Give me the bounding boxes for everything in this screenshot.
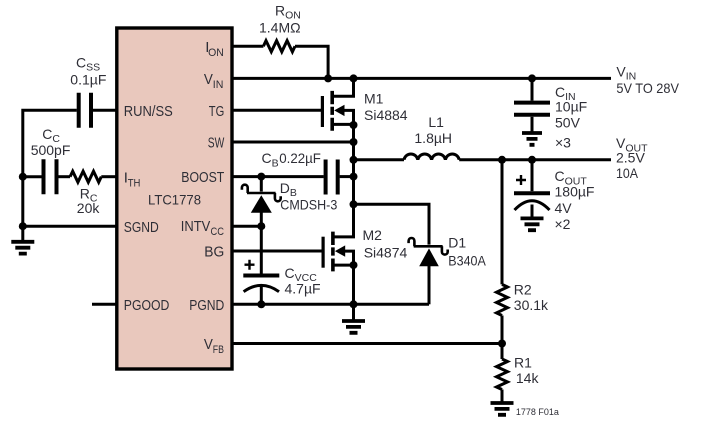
resistor R2 [497,284,508,315]
svg-text:500pF: 500pF [31,142,71,158]
wire COUT to ground [531,205,534,217]
svg-text:M2: M2 [363,227,383,243]
capacitor COUT curved plate [515,201,550,210]
svg-text:IN: IN [213,79,224,91]
svg-text:R2: R2 [514,282,532,298]
wire R2 to VFB [501,316,504,344]
diode D1 schottky bar [409,238,448,255]
svg-text:PGND: PGND [189,297,224,314]
svg-text:0.22µF: 0.22µF [279,150,321,166]
svg-text:5V TO 28V: 5V TO 28V [616,80,679,96]
junction SW-D1 branch [350,200,358,208]
capacitor COUT top plate [514,191,550,195]
transistor M1 channel [330,91,334,131]
svg-text:SGND: SGND [124,219,159,236]
wire VOUT to R2 [501,160,504,285]
capacitor COUT lead [531,160,534,191]
capacitor CIN lead [531,78,534,100]
diode D1 triangle [419,248,439,266]
svg-text:180µF: 180µF [555,184,595,200]
wire RON to VIN rail [295,46,328,78]
svg-text:TG: TG [209,103,225,120]
junction M2 source-body [350,261,358,269]
svg-text:V: V [204,336,213,353]
svg-text:LTC1778: LTC1778 [148,192,201,208]
svg-text:1.4MΩ: 1.4MΩ [259,20,301,36]
svg-text:D1: D1 [448,235,466,251]
svg-text:FB: FB [213,344,224,356]
junction ITH-left rail [19,173,27,181]
svg-text:10A: 10A [616,165,639,181]
wire SW pin to node [232,141,354,144]
wire SW node to L1 [354,158,405,161]
ground COUT [521,218,544,230]
svg-text:30.1k: 30.1k [514,297,549,313]
svg-text:10µF: 10µF [555,99,587,115]
svg-text:14k: 14k [516,370,540,386]
diode D1 anode lead [428,266,431,304]
capacitor CSS [79,93,91,128]
wire VOUT rail [459,158,611,161]
capacitor CVCC top plate [243,274,279,278]
junction VOUT-R2 [498,156,506,164]
svg-text:4.7µF: 4.7µF [285,281,321,297]
wire SW node to D1 [354,204,430,244]
capacitor CB [326,160,338,195]
wire CC to left rail [23,175,42,178]
wire M2 source to PGND rail [352,265,355,304]
junction VIN-CIN [528,74,536,82]
diode DB schottky bar [242,185,281,202]
capacitor CC [44,159,57,194]
svg-text:CB: CB [262,150,279,169]
junction PGND-CVCC [257,300,265,308]
transistor M1 source lead [332,123,353,126]
wire CB to SW node [340,175,354,178]
IC U1 LTC1778 body [117,28,232,369]
transistor M2 source lead [333,264,354,267]
svg-text:CMDSH-3: CMDSH-3 [280,197,337,213]
transistor M2 drain lead [333,204,354,237]
svg-text:B340A: B340A [448,253,486,269]
wire PGOOD stub [92,303,117,306]
wire BOOST pin to CB [232,175,324,178]
wire CSS to left rail [23,110,77,240]
wire RUN/SS to CSS [93,109,117,112]
svg-text:PGOOD: PGOOD [124,297,170,314]
diode DB cathode lead [260,177,263,192]
wire R1 to ground [501,390,504,402]
svg-text:R1: R1 [514,355,532,371]
svg-text:TH: TH [128,177,141,189]
diode DB anode lead [260,213,263,227]
ground CIN [522,133,542,145]
junction VOUT-COUT [528,156,536,164]
svg-text:SW: SW [208,135,225,152]
wire VIN rail [232,77,611,80]
diode DB triangle [251,195,272,213]
svg-text:INTV: INTV [181,218,211,235]
transistor M1 body arrow [334,105,344,116]
ground power [342,321,365,333]
wire ITH to RC [101,175,117,178]
transistor M1 gate bar [321,96,324,127]
transistor M2 body lead [344,251,353,265]
wire VFB to divider [232,342,502,345]
junction CB-SW node [350,173,358,181]
junction SGND-left rail [19,222,27,230]
wire SGND to left rail [23,225,117,228]
svg-text:BG: BG [204,244,224,261]
svg-text:RUN/SS: RUN/SS [124,103,173,120]
svg-text:L1: L1 [428,114,444,130]
capacitor CVCC curved plate [244,285,279,291]
inductor L1 [404,154,459,160]
wire BG to M2 gate [232,250,323,253]
ground signal [11,242,34,254]
capacitor CIN plates [514,103,550,115]
junction SW-L1 [350,156,358,164]
wire RC to CC [58,175,70,178]
transistor M1 drain lead [332,78,353,96]
wire SW node vertical [352,124,355,236]
transistor M2 body arrow [335,245,345,256]
svg-text:50V: 50V [555,115,581,131]
svg-text:20k: 20k [77,200,101,216]
junction VFB-R1-R2 [498,340,506,348]
wire VFB to R1 [501,344,504,360]
resistor R1 [497,359,508,390]
svg-text:CC: CC [211,226,225,238]
wire INTVCC to CVCC [260,226,263,273]
capacitor COUT plus sign [516,175,526,185]
svg-text:1778 F01a: 1778 F01a [516,407,559,417]
junction PGND-M2 source [350,300,358,308]
junction RON-VIN [324,74,332,82]
junction M1 source-body [350,121,358,129]
resistor RON [263,41,295,52]
junction BOOST-DB [257,173,265,181]
svg-text:Si4874: Si4874 [364,244,408,260]
junction SW pin [350,138,358,146]
svg-text:M1: M1 [364,91,384,107]
svg-text:×2: ×2 [555,216,571,232]
wire INTVCC pin [232,225,261,228]
transistor M1 body lead [344,110,354,124]
ground R1 [491,403,514,415]
svg-text:2.5V: 2.5V [616,149,645,165]
svg-text:V: V [204,71,213,88]
svg-text:Si4884: Si4884 [364,107,408,123]
junction INTVCC-DB-CVCC [257,222,265,230]
svg-text:4V: 4V [555,200,573,216]
svg-text:1.8µH: 1.8µH [414,130,452,146]
capacitor CVCC plus sign [245,260,255,270]
wire PGND rail [232,303,429,306]
wire PGND to ground [352,304,355,319]
svg-text:×3: ×3 [555,134,571,150]
svg-text:0.1µF: 0.1µF [70,71,106,87]
wire ION pin to RON [232,45,263,48]
transistor M2 gate bar [322,237,325,268]
resistor RC [70,171,101,182]
wire CVCC to PGND [260,286,263,304]
junction VIN-M1 drain [350,74,358,82]
svg-text:ON: ON [208,47,224,59]
svg-text:BOOST: BOOST [181,169,224,186]
transistor M2 channel [331,232,335,272]
wire TG to M1 gate [232,109,322,112]
wire CIN to ground [531,117,534,132]
